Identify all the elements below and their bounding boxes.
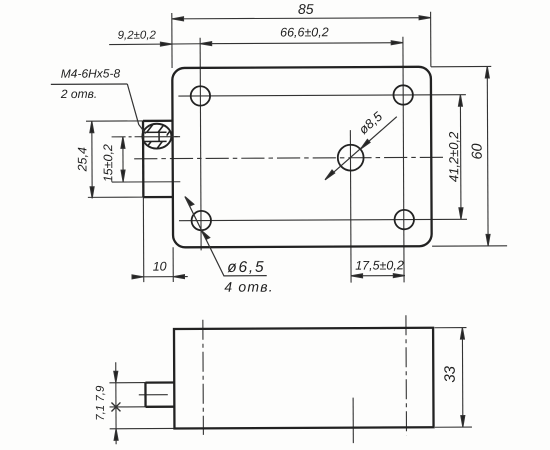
svg-text:10: 10 <box>153 260 167 274</box>
svg-text:15±0,2: 15±0,2 <box>101 144 115 182</box>
svg-text:2 отв.: 2 отв. <box>60 87 97 101</box>
svg-text:9,2±0,2: 9,2±0,2 <box>118 30 157 42</box>
svg-text:ø8,5: ø8,5 <box>356 108 386 137</box>
svg-text:66,6±0,2: 66,6±0,2 <box>280 25 329 39</box>
svg-text:33: 33 <box>442 365 459 382</box>
svg-text:85: 85 <box>298 1 314 17</box>
svg-text:М4-6Нх5-8: М4-6Нх5-8 <box>61 66 121 80</box>
svg-text:25,4: 25,4 <box>75 147 89 172</box>
svg-text:4 отв.: 4 отв. <box>224 279 274 295</box>
svg-text:17,5±0,2: 17,5±0,2 <box>355 258 404 272</box>
svg-text:7,1 7,9: 7,1 7,9 <box>95 385 107 421</box>
svg-text:41,2±0,2: 41,2±0,2 <box>446 131 461 182</box>
svg-text:ø6,5: ø6,5 <box>227 259 265 276</box>
svg-text:60: 60 <box>470 143 486 159</box>
